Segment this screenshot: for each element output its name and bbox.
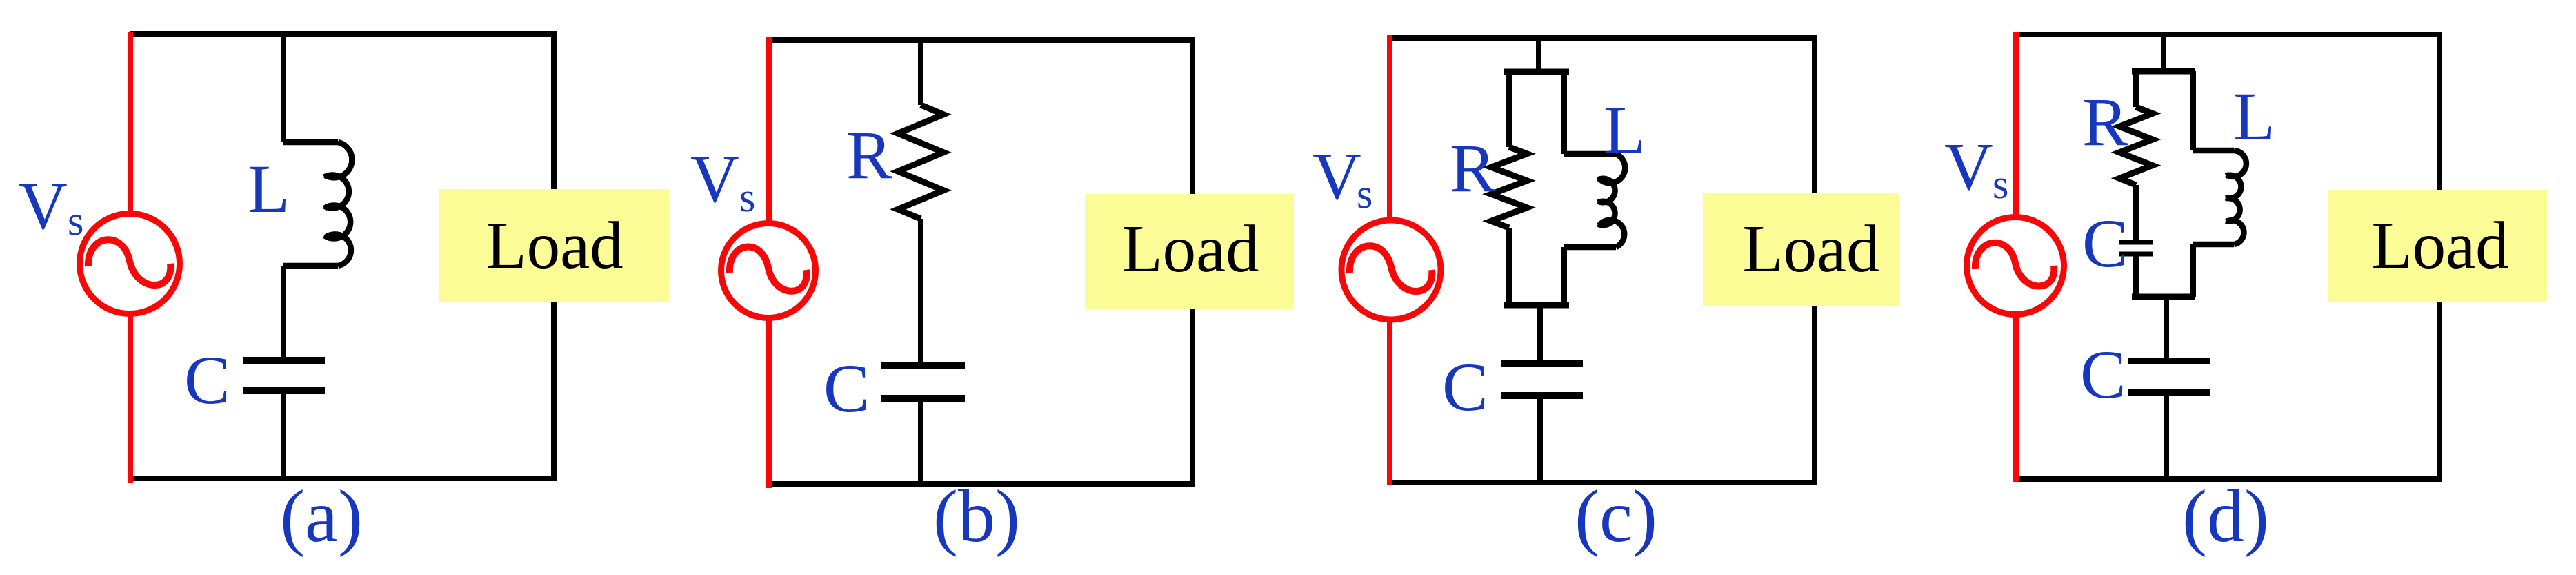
svg-text:(d): (d)	[2182, 476, 2269, 558]
svg-text:s: s	[1993, 162, 2008, 207]
svg-text:R: R	[846, 117, 892, 193]
svg-text:s: s	[739, 175, 755, 220]
svg-text:C: C	[2082, 205, 2128, 282]
svg-text:Load: Load	[2371, 208, 2508, 282]
svg-text:Load: Load	[1121, 212, 1259, 286]
svg-text:R: R	[2082, 84, 2128, 160]
svg-text:C: C	[1442, 349, 1488, 425]
svg-text:s: s	[1357, 171, 1372, 217]
svg-text:L: L	[1604, 92, 1646, 168]
svg-text:C: C	[2080, 336, 2126, 413]
svg-text:C: C	[184, 342, 230, 418]
svg-text:(c): (c)	[1575, 476, 1657, 558]
svg-text:Load: Load	[486, 208, 623, 282]
svg-text:C: C	[823, 350, 870, 427]
svg-text:V: V	[19, 169, 68, 244]
svg-text:s: s	[68, 198, 83, 244]
svg-text:L: L	[248, 150, 290, 227]
svg-text:V: V	[1312, 139, 1361, 214]
svg-text:V: V	[1944, 130, 1993, 204]
svg-text:V: V	[690, 142, 739, 217]
svg-text:(b): (b)	[933, 476, 1020, 558]
svg-text:R: R	[1450, 130, 1496, 206]
svg-text:L: L	[2233, 78, 2275, 155]
svg-text:(a): (a)	[280, 476, 363, 558]
svg-text:Load: Load	[1742, 212, 1879, 286]
